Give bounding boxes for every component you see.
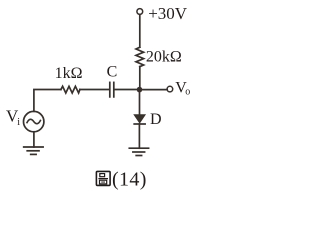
label D [150, 111, 162, 128]
wire node A down to diode D [139, 90, 141, 115]
svg-text:i: i [17, 117, 20, 128]
wire Vi source down to ground [33, 132, 35, 147]
label C [107, 64, 118, 81]
caption glyph "tu" (Figure) drawn as strokes [96, 171, 110, 185]
caption text (14) [112, 168, 147, 190]
label 1kOhm [55, 65, 83, 82]
label Vi [6, 107, 20, 128]
ground (below diode D) [129, 148, 148, 155]
wire from +30V terminal down to 20k resistor [139, 15, 141, 48]
svg-text:(14): (14) [112, 168, 147, 190]
wire capacitor C to node A [115, 89, 138, 91]
svg-text:o: o [185, 87, 190, 98]
svg-text:1kΩ: 1kΩ [55, 65, 83, 82]
svg-text:D: D [150, 111, 162, 128]
wire node A to Vo terminal [140, 89, 168, 91]
terminal Vo (open circle) [167, 86, 173, 92]
diode D (cathode down) [134, 115, 145, 124]
svg-text:20kΩ: 20kΩ [146, 48, 182, 65]
wire diode D to ground [138, 124, 140, 148]
wire 1k resistor to capacitor C [80, 89, 109, 91]
capacitor C (two plates) [110, 82, 114, 97]
label +30V [148, 4, 188, 23]
wire top-left corner: from Vi source up and right to 1k resistor [34, 90, 61, 112]
label Vo [175, 80, 190, 98]
ground (below Vi source) [24, 147, 43, 154]
label 20kOhm [146, 48, 182, 65]
resistor R 1kOhm (horizontal zigzag) [61, 86, 80, 93]
wire from 20k resistor down to node A [139, 67, 141, 90]
AC source Vi (circle with sine) [24, 111, 44, 131]
svg-text:+30V: +30V [148, 4, 188, 23]
node A (junction dot) [137, 87, 143, 93]
svg-text:C: C [107, 64, 118, 81]
terminal +30V supply [137, 9, 143, 15]
resistor R 20kOhm (vertical zigzag) [136, 47, 144, 66]
